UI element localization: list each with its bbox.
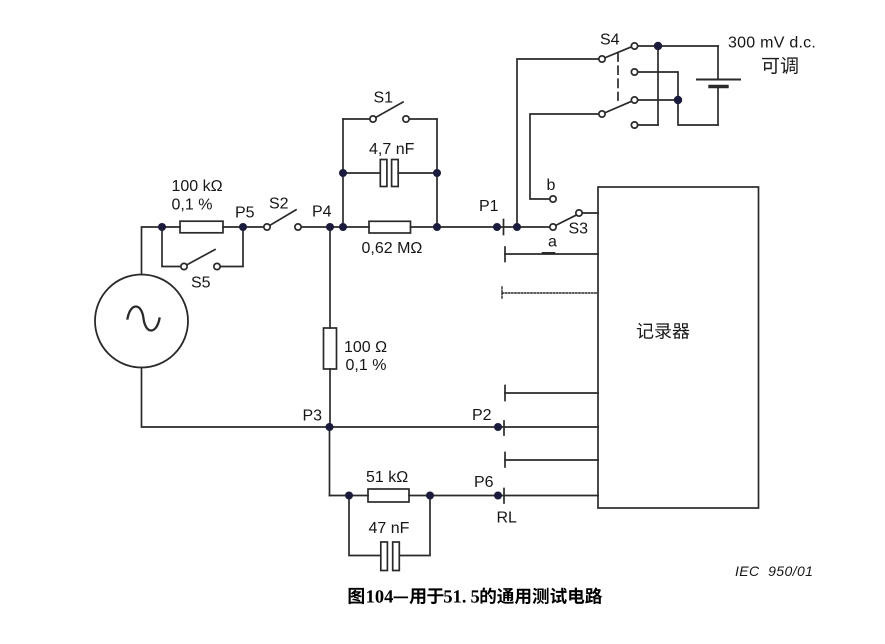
switch S3 <box>550 224 556 230</box>
wire capacitor branch right <box>398 172 437 174</box>
junction 51k left <box>345 492 353 500</box>
svg-text:a: a <box>548 234 557 251</box>
wire S2 to P4 <box>302 226 344 228</box>
capacitor 4,7 nF <box>380 160 387 187</box>
svg-text:0,62 MΩ: 0,62 MΩ <box>362 240 423 257</box>
wire P4 down to 100 Ohm <box>329 227 331 328</box>
svg-text:P4: P4 <box>312 204 332 221</box>
S4 throw contact 4 <box>631 122 637 128</box>
wire 47nF branch right <box>399 496 430 556</box>
svg-text:100 Ω: 100 Ω <box>344 339 387 356</box>
recorder input a terminal bar <box>504 247 506 262</box>
svg-text:P5: P5 <box>235 205 255 222</box>
wire P1 tap up to S4 <box>517 59 599 227</box>
wire 51k to P6 <box>409 495 598 497</box>
wire throw1 to battery top <box>638 45 718 47</box>
recorder input stub wire <box>505 392 598 394</box>
wire S1 branch right <box>410 118 438 120</box>
junction node at source top <box>158 223 166 231</box>
recorder input a wire <box>505 253 598 255</box>
recorder input stub wire 2 <box>505 459 598 461</box>
junction 51k right <box>426 492 434 500</box>
junction capacitor right <box>433 169 441 177</box>
caption figure 104 <box>349 588 603 605</box>
svg-text:0,1 %: 0,1 % <box>346 357 387 374</box>
wire crossover vertical 1 <box>657 46 659 125</box>
S4 pivot bottom <box>599 111 605 117</box>
svg-text:4,7 nF: 4,7 nF <box>369 141 415 158</box>
switch S4 pivot top <box>599 56 605 62</box>
node P1 <box>493 223 501 231</box>
wire 0,62 M to right node <box>411 226 438 228</box>
S4 throw contact 1 <box>631 43 637 49</box>
recorder input stub terminal bar <box>504 386 506 401</box>
switch S1 <box>370 116 376 122</box>
terminal bar at P6 <box>503 489 505 504</box>
node P5 <box>239 223 247 231</box>
wire 47nF branch left <box>349 496 381 556</box>
battery plate short <box>710 85 727 88</box>
resistor 51 kOhm <box>368 489 409 502</box>
wire node to resistor <box>162 226 180 228</box>
S4 bottom arm <box>606 102 632 113</box>
svg-text:P2: P2 <box>472 407 492 424</box>
wire capacitor branch left <box>343 172 380 174</box>
wire b to S4 lower pivot <box>530 114 599 199</box>
recorder box <box>598 187 759 508</box>
S4 throw contact 3 <box>631 97 637 103</box>
S4 throw contact 2 <box>631 69 637 75</box>
svg-text:S5: S5 <box>191 275 211 292</box>
svg-text:b: b <box>547 177 556 194</box>
recorder inputs ellipsis dotted wire <box>501 287 503 299</box>
svg-text:IEC 950/01: IEC 950/01 <box>735 563 813 579</box>
terminal bar at P1 <box>503 220 505 235</box>
resistor 100 kOhm <box>180 221 223 233</box>
svg-text:S1: S1 <box>374 90 394 107</box>
wire P4 to 0,62 M <box>343 226 369 228</box>
S4 gang dashed link <box>617 53 619 100</box>
label recorder (jiluqi) <box>637 323 690 339</box>
svg-text:47 nF: 47 nF <box>369 520 410 537</box>
wire right node to P1 and S3 <box>437 226 550 228</box>
AC source G1 <box>95 275 188 368</box>
svg-text:P3: P3 <box>303 408 323 425</box>
node P4 <box>326 223 334 231</box>
terminal a contact tick <box>543 252 554 255</box>
wire resistor to P5 <box>223 226 243 228</box>
wire throw4 stub <box>638 124 658 126</box>
svg-text:S4: S4 <box>600 32 620 49</box>
svg-text:P1: P1 <box>479 198 499 215</box>
junction crossover <box>674 96 682 104</box>
svg-text:S2: S2 <box>269 196 289 213</box>
wire P5 to S2 <box>243 226 264 228</box>
node P2 <box>494 423 502 431</box>
svg-text:51 kΩ: 51 kΩ <box>366 469 408 486</box>
S4 top arm <box>606 47 632 58</box>
wire to 51k <box>330 495 369 497</box>
wire S5 branch left <box>162 227 181 267</box>
wire source top to node <box>142 227 163 275</box>
svg-text:300 mV d.c.: 300 mV d.c. <box>728 35 816 52</box>
svg-text:P6: P6 <box>474 474 494 491</box>
switch S2 <box>264 224 270 230</box>
capacitor 47 nF <box>381 542 388 571</box>
battery plate long <box>697 79 740 81</box>
resistor 100 Ohm <box>324 328 337 369</box>
wire throw2 to crossover <box>638 72 718 125</box>
label kediao (adjustable) <box>762 57 798 74</box>
node P6 <box>494 492 502 500</box>
node b terminal <box>550 196 556 202</box>
junction S4 tap <box>513 223 521 231</box>
AC sine symbol <box>128 307 160 331</box>
wire S1 branch left <box>343 118 370 120</box>
wire throw3 to crossover <box>638 99 678 101</box>
svg-text:0,1 %: 0,1 % <box>172 197 213 214</box>
switch S5 <box>181 263 187 269</box>
terminal bar at P2 <box>503 421 505 435</box>
battery bottom wire <box>717 88 719 125</box>
wire P3 down to 51k branch <box>329 427 331 496</box>
wire S5 branch right <box>221 227 244 267</box>
svg-text:RL: RL <box>497 510 518 527</box>
svg-text:S3: S3 <box>569 221 589 238</box>
junction battery top <box>654 42 662 50</box>
wire parallel block left vertical <box>342 119 344 227</box>
battery V1 top wire <box>717 46 719 78</box>
junction capacitor left <box>339 169 347 177</box>
recorder input stub terminal bar 2 <box>504 453 506 468</box>
resistor 0,62 MOhm <box>369 221 411 233</box>
wire parallel block right vertical <box>436 119 438 227</box>
node P3 <box>326 423 334 431</box>
junction parallel block right <box>433 223 441 231</box>
wire 100 Ohm to P3 <box>329 369 331 427</box>
svg-text:100 kΩ: 100 kΩ <box>172 178 223 195</box>
junction parallel block left <box>339 223 347 231</box>
wire S3 to recorder <box>583 212 599 214</box>
wire source bottom to P3 and P2 <box>142 368 599 428</box>
